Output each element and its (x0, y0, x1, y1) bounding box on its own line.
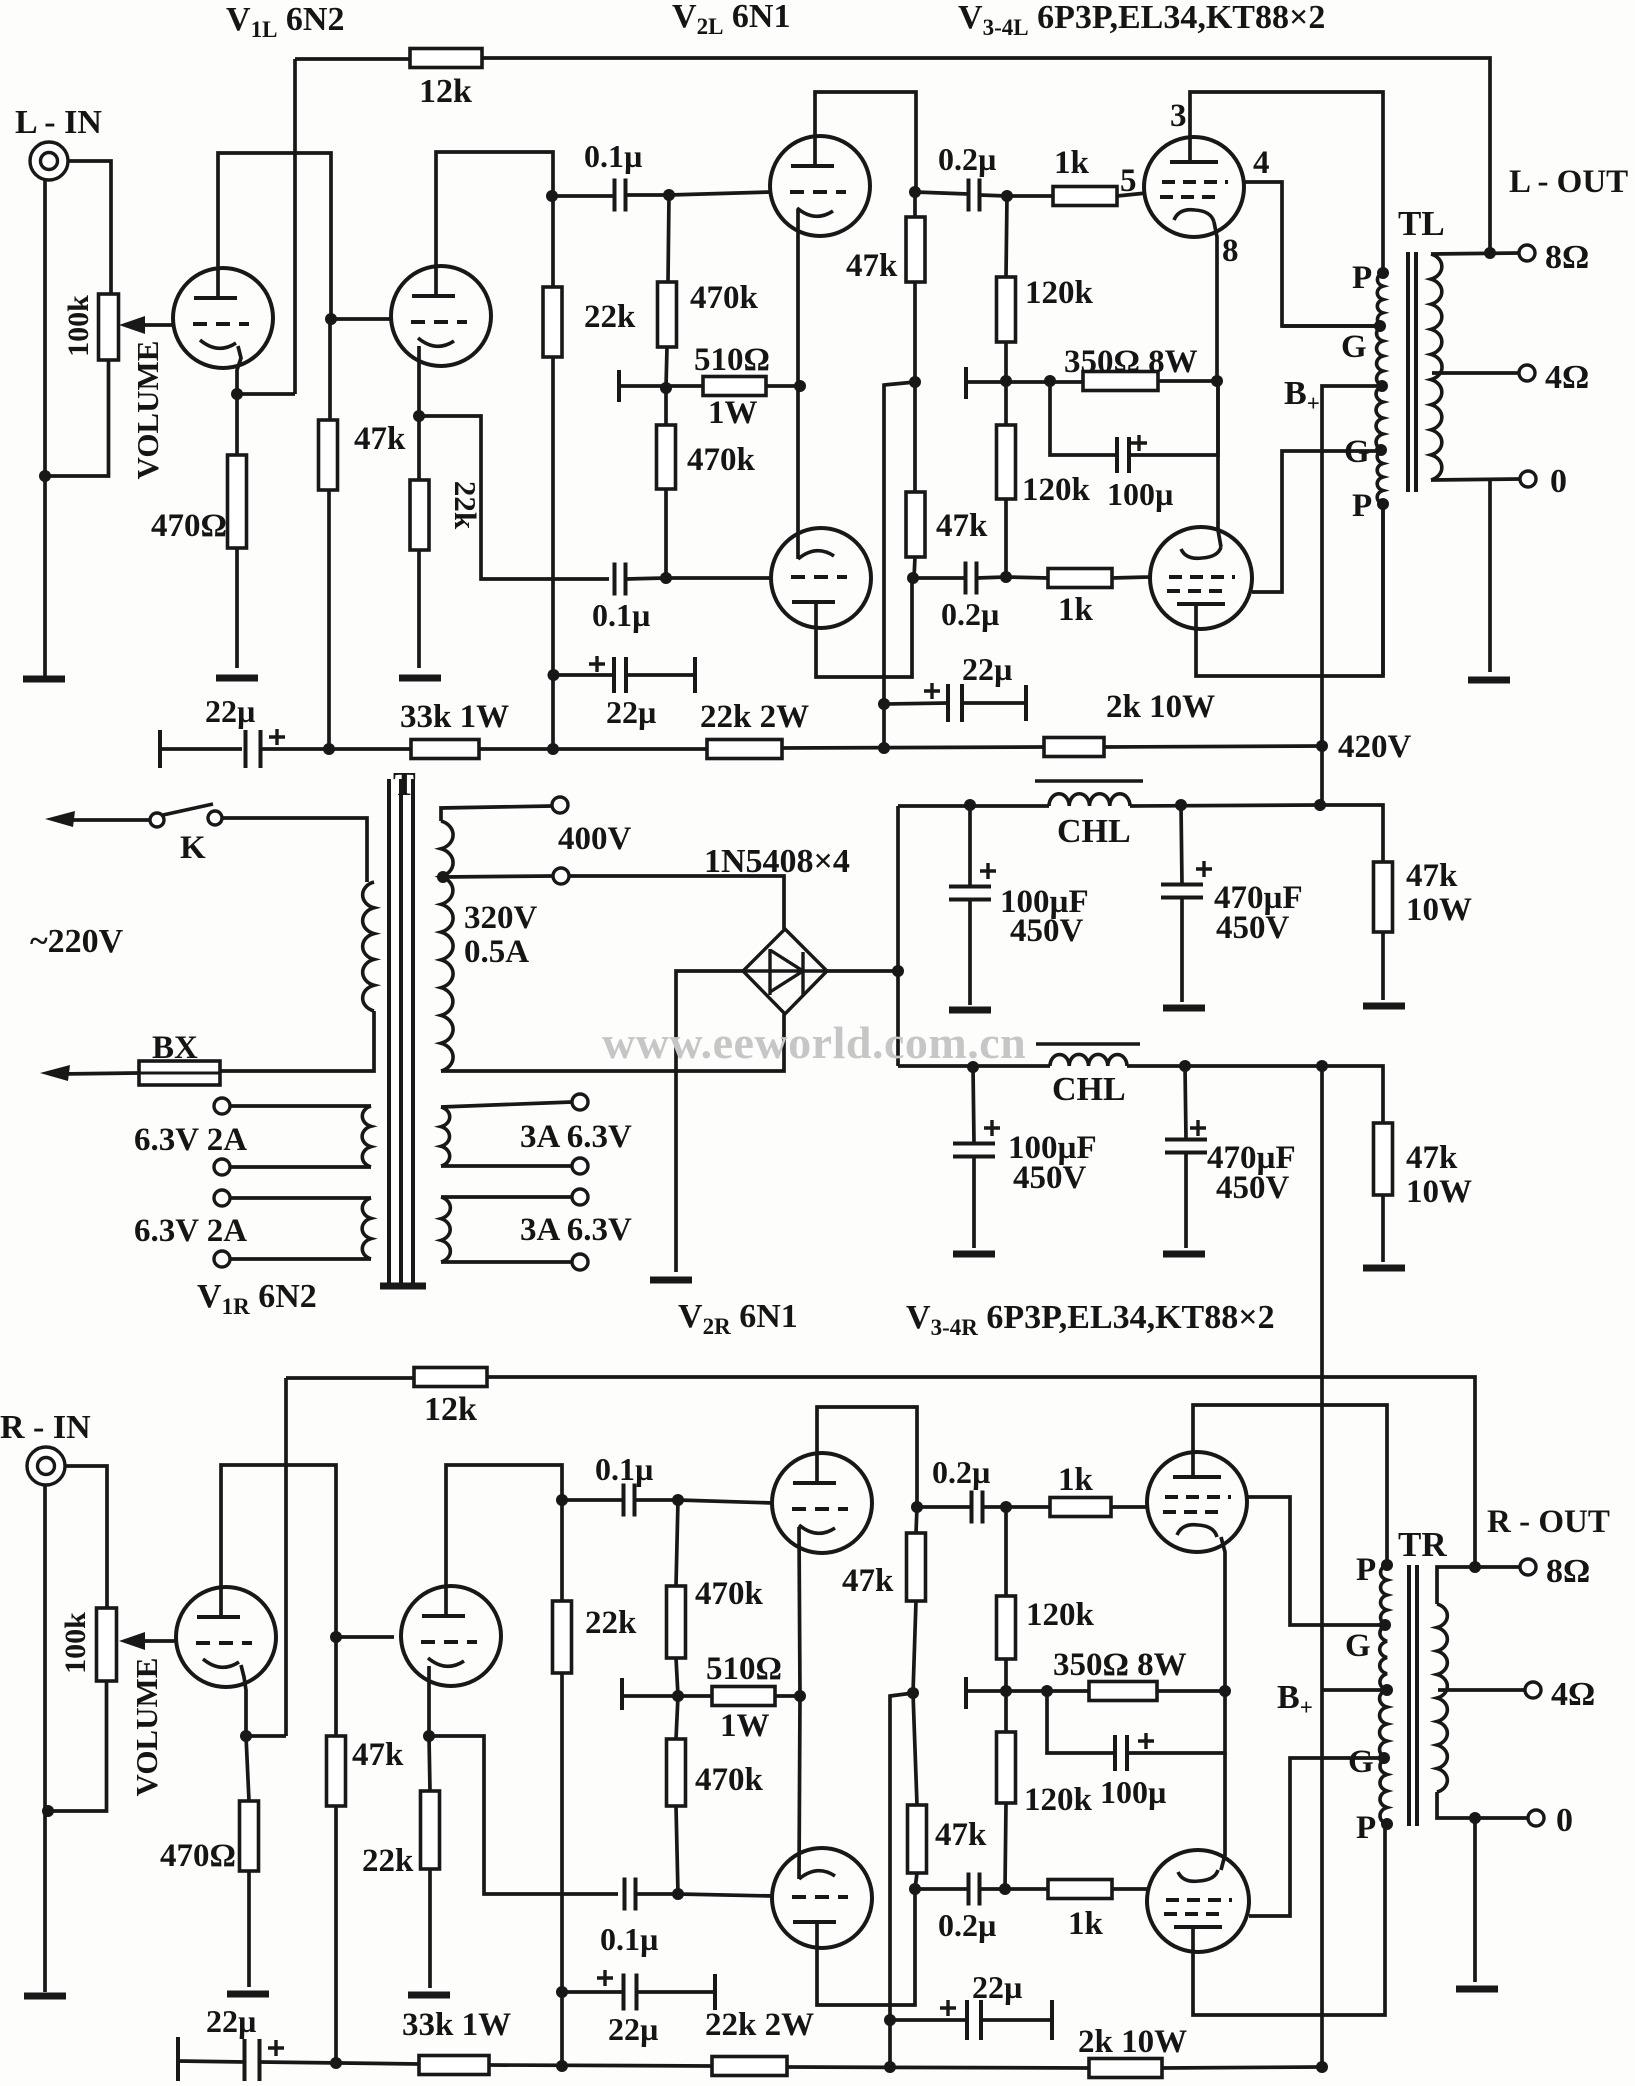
wire V4R cathode up (1221, 1753, 1225, 1870)
capacitor 100u bypass R (1115, 1735, 1127, 1771)
wire V3L screen to G (1244, 182, 1378, 326)
svg-text:22µ: 22µ (205, 693, 255, 729)
plus 22u mid R (597, 1970, 613, 1986)
wire V2L-a cathode to rail (796, 210, 800, 386)
svg-text:47k: 47k (935, 1817, 987, 1853)
wire V4L cathode up (1218, 381, 1221, 547)
terminal heater2 top (214, 1190, 230, 1206)
potentiometer 100k body (99, 294, 119, 360)
wire 470k to bias rail R (676, 1658, 678, 1696)
node 470uF top (1175, 799, 1187, 811)
wire V1L-a cathode down (237, 346, 241, 394)
node 100u tap on rail (1044, 375, 1056, 387)
node 47k midpoint R (907, 1687, 919, 1699)
choke CHL lower core bar (1036, 1042, 1140, 1045)
wire HV bottom to bridge bottom (441, 1014, 784, 1071)
wire heater2 bottom (230, 1257, 371, 1261)
heater winding 3A-2 (441, 1197, 450, 1262)
svg-text:VOLUME: VOLUME (130, 341, 165, 480)
terminal 0 (1520, 471, 1536, 487)
resistor 350ohm 8W (1083, 372, 1158, 391)
svg-text:V1R 6N2: V1R 6N2 (197, 1278, 317, 1319)
resistor 47k phase splitter upper R (907, 1533, 926, 1601)
wire lower cap to junction (626, 578, 666, 579)
wire plate junction to 47k up (913, 192, 917, 217)
wire plate junction to 0.2u R (917, 1505, 971, 1509)
svg-text:22k 2W: 22k 2W (705, 2007, 814, 2043)
svg-text:0.2µ: 0.2µ (932, 1454, 990, 1490)
core T lines (387, 779, 391, 1283)
resistor 22k cathode V1L-b (410, 480, 429, 550)
wire secondary top to 8ohm (1431, 253, 1519, 254)
resistor 470k lower R (667, 1739, 686, 1806)
bus wire segment 2 (479, 747, 707, 751)
svg-text:VOLUME: VOLUME (129, 1658, 164, 1797)
svg-text:CHL: CHL (1057, 813, 1131, 850)
svg-text:22µ: 22µ (606, 694, 656, 730)
wire cathode tap to lower coupling R (429, 1736, 618, 1894)
wire bridge minus (676, 971, 743, 1272)
primary coil B-G (1376, 386, 1383, 450)
wire 22k to ground (417, 550, 421, 668)
bus wire segment 3R (787, 2067, 1089, 2068)
wire V4R screen to G (1249, 1758, 1381, 1916)
wire 0.2u lower to grid node R (980, 1887, 1005, 1891)
resistor 47k 10W bleeder lower (1374, 1123, 1393, 1195)
primary G dot upper (1374, 320, 1386, 332)
svg-text:BX: BX (152, 1030, 198, 1066)
feedback top wire R (286, 1376, 414, 1380)
wire midpoint to B+ riser R (890, 1693, 913, 2067)
bus 22u wire left R (178, 2061, 245, 2062)
terminal 8ohm (1519, 245, 1535, 261)
svg-text:TL: TL (1398, 204, 1445, 243)
svg-text:100k: 100k (59, 1612, 92, 1674)
choke CHL upper (1049, 794, 1130, 806)
resistor 470ohm cathode R (240, 1801, 259, 1871)
wire junction to V2R-b grid (678, 1894, 773, 1896)
upper filter wire left (898, 804, 1049, 808)
wire 1k to V4R grid (1112, 1887, 1150, 1891)
wire 22u mid right R (637, 1990, 715, 1994)
svg-text:12k: 12k (424, 1391, 477, 1428)
svg-text:22k: 22k (448, 481, 483, 530)
wire V1R-a cathode down (241, 1665, 246, 1736)
wire 470k lower to coupling (664, 489, 668, 578)
svg-text:0.2µ: 0.2µ (938, 141, 996, 177)
capacitor 0.1u upper R (624, 1484, 635, 1517)
node 100uF top (964, 799, 976, 811)
svg-text:100k: 100k (62, 295, 95, 357)
wire V1L-b cathode down (417, 346, 421, 416)
bus wire segment 4 (1104, 746, 1322, 747)
svg-text:470k: 470k (690, 280, 759, 316)
svg-text:L - OUT: L - OUT (1509, 164, 1628, 200)
power tube V3L (1144, 137, 1244, 237)
node R supply join (1316, 2061, 1328, 2073)
wire V4L plate to transformer (1196, 504, 1383, 676)
wire 22k load to bus R (560, 1673, 564, 2067)
bus wire segment 2R (489, 2065, 712, 2066)
wire rail to 470k lower (664, 388, 668, 425)
node V2L-a plate junction (909, 186, 921, 198)
wire 22k load to bus (551, 357, 555, 749)
capacitor 0.1u upper (615, 179, 626, 212)
wire V2L-b plate down (816, 578, 912, 677)
ground left input R (24, 1993, 66, 2000)
node V2R-b plate junction (909, 1883, 921, 1895)
svg-text:P: P (1356, 1810, 1376, 1846)
node 22k load on bus (547, 743, 559, 755)
wire junction to 1k lower (1006, 577, 1048, 578)
capacitor 22u bus (246, 730, 261, 768)
svg-text:V2L 6N1: V2L 6N1 (672, 0, 790, 39)
svg-text:1N5408×4: 1N5408×4 (704, 843, 850, 880)
wire V2R-b plate down (817, 1889, 915, 2005)
svg-text:R - IN: R - IN (0, 1409, 91, 1446)
terminal heater1 bottom (214, 1159, 230, 1175)
wire jack shield down (43, 180, 47, 679)
fuse BX (139, 1061, 220, 1085)
plus 100u R (1138, 1733, 1154, 1749)
primary coil P-G (1377, 273, 1383, 326)
wire V2L-a plate arch (815, 92, 916, 192)
bus 22u wire left (160, 747, 242, 751)
node 22u tap (548, 669, 560, 681)
svg-text:3A 6.3V: 3A 6.3V (520, 1119, 632, 1155)
bias rail wire R (622, 1694, 712, 1698)
capacitor 22u bus R (245, 2039, 260, 2081)
svg-text:120k: 120k (1026, 1597, 1095, 1633)
wire 22k to ground R (428, 1869, 432, 1988)
wire jack shield down R (43, 1485, 47, 1992)
wire pot bottom to shield (45, 360, 109, 476)
node V2L-b plate junction (907, 572, 919, 584)
primary P dot upper (1377, 267, 1389, 279)
svg-text:L - IN: L - IN (15, 104, 102, 141)
wire 1k to V3R grid (1111, 1505, 1148, 1509)
22u mid T terminator (693, 657, 697, 693)
wire bleeder lower to ground (1381, 1195, 1385, 1262)
wire V1R-a plate arch (221, 1465, 336, 1637)
resistor 12k feedback R (414, 1368, 487, 1387)
node 420V (1316, 740, 1328, 752)
switch K (150, 813, 164, 827)
wire secondary top to 8ohm R (1437, 1567, 1520, 1604)
wire B+ to bus (1322, 386, 1382, 746)
svg-text:5: 5 (1120, 163, 1137, 199)
node V4R grid junction (999, 1883, 1011, 1895)
wire V4R plate to transformer (1193, 1824, 1385, 2015)
capacitor 22u decoupling mid R (624, 1974, 637, 2011)
svg-text:100µ: 100µ (1100, 1774, 1166, 1810)
wire V2R-a cathode to rail (799, 1527, 800, 1696)
svg-text:G: G (1344, 434, 1370, 470)
svg-text:47k: 47k (352, 1737, 404, 1773)
wire midpoint to B+ riser (884, 382, 915, 749)
capacitor 100u bypass (1117, 437, 1129, 473)
node 47k midpoint (909, 376, 921, 388)
triode V1L-a (173, 268, 273, 368)
wire 470uF-2 to ground (1184, 1153, 1188, 1248)
pot wiper arrow R (132, 1639, 176, 1643)
wire junction to 1k lower R (1005, 1887, 1048, 1891)
wire plate junction to 0.2u lower (913, 576, 965, 580)
wire 320V to bridge top (569, 876, 784, 929)
plus bus 22u R (268, 2040, 284, 2056)
wire plate junction to 47k up R (916, 1507, 917, 1533)
resistor 2k 10W (1044, 738, 1104, 757)
wire V2L-b cathode to rail (796, 386, 800, 559)
svg-text:47k: 47k (354, 421, 406, 457)
node 470k junction on rail (660, 382, 672, 394)
svg-text:1k: 1k (1058, 1462, 1094, 1498)
svg-text:0.1µ: 0.1µ (584, 138, 642, 174)
capacitor 22u output stage R (967, 2000, 981, 2040)
svg-text:www.eeworld.com.cn: www.eeworld.com.cn (602, 1017, 1026, 1068)
resistor 47k phase splitter upper (906, 217, 925, 282)
wire 510ohm to cathode node R (775, 1694, 800, 1698)
wire 47k to mid node R (913, 1601, 916, 1693)
node B+ L join (1314, 799, 1326, 811)
terminal 4ohm R (1525, 1682, 1541, 1698)
wire 100u right R (1127, 1691, 1225, 1753)
wire V3L cathode down (1214, 222, 1217, 381)
svg-text:3: 3 (1170, 98, 1187, 134)
svg-text:P: P (1352, 260, 1372, 296)
resistor 120k upper (997, 277, 1016, 342)
terminal heater4 top (572, 1189, 588, 1205)
svg-text:0.1µ: 0.1µ (592, 597, 650, 633)
svg-text:1W: 1W (708, 395, 758, 431)
wire 100uF-2 to ground (972, 1157, 976, 1248)
wire 0 tap to ground (1488, 480, 1492, 672)
resistor 470ohm cathode (228, 455, 247, 548)
svg-text:22k 2W: 22k 2W (700, 699, 809, 735)
wire heater4 top (441, 1195, 572, 1199)
wire grid node to 120k (1006, 196, 1007, 277)
power tube V4L (1150, 527, 1252, 629)
svg-text:120k: 120k (1024, 1782, 1093, 1818)
choke CHL lower (1050, 1054, 1127, 1066)
resistor 47k 10W bleeder upper (1374, 862, 1393, 932)
svg-text:100µ: 100µ (1107, 476, 1173, 512)
node coupling junction 1R (556, 1494, 568, 1506)
svg-text:V2R 6N1: V2R 6N1 (678, 1298, 798, 1339)
feedback wire to output R (487, 1377, 1475, 1567)
wire lower cap to junction R (636, 1892, 678, 1896)
ground under 22k (399, 675, 441, 682)
svg-text:33k 1W: 33k 1W (402, 2007, 511, 2043)
primary G dot lower (1375, 444, 1387, 456)
triode V1R-b (401, 1586, 501, 1686)
primary coil B-G R (1380, 1690, 1387, 1758)
node V4L grid junction (1000, 571, 1012, 583)
svg-text:1k: 1k (1054, 145, 1090, 181)
svg-text:450V: 450V (1010, 913, 1084, 949)
wire heater4 bottom (441, 1260, 572, 1264)
wire secondary mid to 4ohm (1432, 371, 1519, 375)
primary P dot lower (1377, 498, 1389, 510)
core T bottom bar (380, 1283, 426, 1290)
wire B+ L to 47k bleeder (1320, 805, 1383, 862)
resistor 470k upper R (667, 1586, 686, 1658)
svg-text:22µ: 22µ (972, 1969, 1022, 2005)
svg-text:470Ω: 470Ω (151, 508, 227, 544)
node 0 tap R (1469, 1812, 1481, 1824)
wire 470ohm to ground R (247, 1871, 251, 1987)
wire coupling junction to cap (552, 194, 614, 198)
wire V1L-a plate arch (218, 153, 331, 319)
capacitor 470uF upper (1161, 885, 1203, 898)
resistor 120k lower (997, 425, 1016, 499)
plus 22u out (924, 683, 940, 699)
lower filter wire right (1127, 1064, 1322, 1068)
wire 400V tap (441, 806, 552, 821)
wire junction to 1k R (1006, 1505, 1050, 1509)
wire 22u mid right (626, 673, 695, 677)
heater winding 6.3V-2 (362, 1198, 371, 1259)
capacitor 0.2u upper R (972, 1491, 983, 1524)
wire V3R plate to transformer (1193, 1405, 1387, 1565)
core TL (1406, 252, 1410, 492)
plus 100uF lower (984, 1120, 1000, 1136)
wire 420V to filter (1320, 746, 1324, 805)
svg-text:G: G (1345, 1628, 1371, 1664)
bias rail wire (619, 384, 703, 388)
svg-text:10W: 10W (1406, 892, 1472, 928)
terminal heater4 bottom (572, 1254, 588, 1270)
triode V1L-b (391, 266, 491, 366)
svg-text:~220V: ~220V (30, 923, 124, 960)
primary coil G-B R (1380, 1625, 1387, 1690)
ground 470uF upper (1163, 1005, 1205, 1012)
bus wire segment 1R (260, 2062, 419, 2064)
node lower coupling junction R (672, 1888, 684, 1900)
wire 320V tap (443, 876, 553, 877)
terminal 320V (553, 868, 569, 884)
wire 47k to mid node (913, 282, 917, 382)
capacitor 0.1u lower (615, 563, 626, 596)
wire primary bottom (220, 1011, 374, 1071)
svg-text:22k: 22k (585, 1605, 637, 1641)
node V1L-a plate junction (325, 313, 337, 325)
terminal 4ohm (1519, 365, 1535, 381)
wire heater1 top (230, 1104, 371, 1108)
wire plate junction to 0.2u (915, 192, 968, 194)
wire B+ R to 47k bleeder (1322, 1066, 1383, 1123)
choke CHL upper core bar (1035, 779, 1143, 782)
svg-text:22µ: 22µ (206, 2003, 256, 2039)
primary G dot upper R (1379, 1619, 1391, 1631)
resistor 2k 10W R (1089, 2059, 1162, 2078)
svg-text:10W: 10W (1406, 1174, 1472, 1210)
node 47k on bus R (330, 2057, 342, 2069)
svg-text:2k 10W: 2k 10W (1078, 2024, 1187, 2060)
wire plate junction to 0.2u lower R (915, 1887, 968, 1891)
svg-text:6.3V 2A: 6.3V 2A (134, 1213, 247, 1249)
svg-text:450V: 450V (1216, 1170, 1290, 1206)
wire 0 tap to ground R (1473, 1818, 1477, 1982)
ground under 470ohm (216, 675, 258, 682)
secondary coil TR (1437, 1604, 1447, 1792)
terminal heater1 top (214, 1098, 230, 1114)
wire coupling junction to cap R (562, 1498, 623, 1502)
svg-text:120k: 120k (1025, 275, 1094, 311)
feedback riser wire (293, 59, 297, 394)
svg-text:350Ω 8W: 350Ω 8W (1053, 1647, 1187, 1683)
junction pot-shield R (42, 1805, 54, 1817)
node output cathodes R (1219, 1685, 1231, 1697)
wire 22k load top lead R (560, 1500, 564, 1601)
capacitor 0.2u lower R (969, 1873, 980, 1906)
input jack R-IN (27, 1447, 65, 1485)
primary P dot lower R (1381, 1818, 1393, 1830)
22u mid T terminator R (713, 1974, 717, 2010)
node feedback at 8ohm R (1469, 1561, 1481, 1573)
triode V2L-b (771, 528, 871, 628)
wire 22u mid left R (562, 1990, 623, 1994)
wire bleeder to ground upper (1381, 932, 1385, 1000)
svg-text:8Ω: 8Ω (1545, 239, 1589, 276)
plus 470uF lower (1190, 1120, 1206, 1136)
wire 470k lower to coupling R (676, 1806, 678, 1894)
resistor 47k phase splitter lower (906, 492, 925, 557)
feedback riser wire R (284, 1378, 288, 1736)
resistor 47k V1L-a load (319, 420, 338, 490)
wire V3R screen to G (1247, 1497, 1385, 1625)
wire 470uF top lead (1181, 805, 1182, 885)
resistor 120k lower R (997, 1732, 1016, 1803)
wire secondary bottom to 0 (1431, 479, 1520, 480)
wire V1L-b plate arch (436, 152, 553, 296)
wire V2R-b cathode to rail (799, 1696, 800, 1879)
potentiometer 100k body R (97, 1608, 117, 1681)
svg-text:47k: 47k (846, 248, 898, 284)
capacitor 0.1u lower R (625, 1878, 636, 1911)
wire mid node to 47k lower R (913, 1693, 917, 1805)
wire 350ohm to cathode node (1158, 379, 1217, 383)
wire 120k to cathode rail (1004, 342, 1008, 381)
terminal 8ohm R (1520, 1559, 1536, 1575)
wire 100uF top lead (968, 805, 972, 887)
transformer T primary winding (363, 882, 374, 1011)
ground 470uF lower (1163, 1251, 1205, 1258)
wire rail to 470k lower R (676, 1696, 678, 1739)
ground bleeder upper (1363, 1003, 1405, 1010)
ground under 0 tap R (1456, 1986, 1498, 1993)
bus 22u cap T terminator (158, 730, 162, 768)
resistor 120k upper R (997, 1596, 1016, 1659)
wire cathode to feedback riser (237, 392, 295, 396)
wire pot bottom to shield R (48, 1681, 107, 1811)
svg-text:120k: 120k (1022, 472, 1091, 508)
node 22u cathode tap (878, 698, 890, 710)
resistor 22k V1L-b load (543, 287, 562, 357)
plus bus 22u (269, 729, 285, 745)
resistor 33k 1W (411, 740, 479, 759)
wire 120k lower to grid node R (1005, 1803, 1006, 1889)
bias rail T terminator R (620, 1678, 624, 1710)
HV winding (441, 821, 453, 1071)
wire cathode junction to 470ohm (235, 394, 239, 455)
svg-text:47k: 47k (842, 1563, 894, 1599)
node feedback at 8ohm (1484, 247, 1496, 259)
plus 22u out R (940, 2000, 956, 2016)
node 470k junction on rail R (672, 1690, 684, 1702)
svg-text:1W: 1W (720, 1708, 770, 1744)
svg-text:350Ω 8W: 350Ω 8W (1064, 344, 1198, 380)
